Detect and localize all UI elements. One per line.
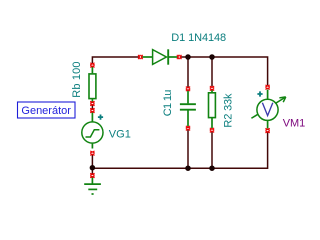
- wire Rb bottom to VG1 top: [91, 105, 93, 110]
- wire R2 top drop: [211, 57, 213, 86]
- VM1 V letter: [262, 103, 272, 116]
- VG1 plus sign: [98, 115, 103, 120]
- node junction dot top C1: [185, 54, 191, 60]
- resistor Rb body: [89, 67, 96, 103]
- pin mark VG1 bottom: [90, 151, 94, 155]
- pin mark diode cathode: [177, 55, 181, 59]
- pin mark R2 bottom: [210, 128, 214, 132]
- wire C1 top drop: [187, 57, 189, 87]
- pin mark VM1 bottom: [265, 128, 269, 132]
- pin mark Rb top: [90, 63, 94, 67]
- node junction dot bottom left: [90, 165, 96, 171]
- resistor R2 label "R2 33k": [223, 93, 235, 128]
- node junction dot top R2: [209, 54, 215, 60]
- pin mark Rb bottom: [90, 101, 94, 105]
- pin mark VG1 top: [90, 108, 94, 112]
- node junction dot bottom R2: [209, 165, 215, 171]
- wire C1 bottom drop: [187, 130, 189, 168]
- wire VG1 bottom to ground node: [91, 154, 93, 174]
- diode D1 label "D1 1N4148": [171, 32, 226, 44]
- text label "Generátor" box: [18, 102, 76, 118]
- VM1 label: [283, 118, 305, 130]
- pin mark diode anode: [138, 55, 142, 59]
- svg-text:VM1: VM1: [283, 118, 305, 130]
- capacitor C1 label "C1 1u": [162, 90, 174, 116]
- svg-text:C1 1u: C1 1u: [162, 90, 174, 116]
- VG1 label: [109, 128, 131, 140]
- ground: [84, 177, 101, 194]
- wire from diode cathode along top rail to VM1: [181, 57, 268, 85]
- svg-text:R2 33k: R2 33k: [223, 93, 235, 128]
- diode D1: [142, 49, 178, 64]
- node junction dot bottom C1: [185, 165, 191, 171]
- svg-text:Generátor: Generátor: [21, 105, 71, 117]
- resistor Rb label "Rb 100": [71, 61, 83, 97]
- wire R2 bottom drop: [211, 132, 213, 169]
- bottom rail wire: [92, 132, 267, 168]
- pin mark ground: [90, 173, 94, 177]
- pin mark VM1 top: [265, 85, 269, 89]
- pin mark R2 top: [210, 86, 214, 90]
- voltmeter VM1: [251, 90, 285, 129]
- wire from Rb top to diode anode: [92, 57, 139, 63]
- pin mark C1 bottom: [186, 126, 190, 130]
- svg-text:Rb 100: Rb 100: [71, 61, 83, 97]
- svg-text:VG1: VG1: [109, 128, 131, 140]
- capacitor C1: [180, 90, 196, 126]
- pin mark C1 top: [186, 87, 190, 91]
- generator VG1: [82, 112, 103, 148]
- VM1 plus sign: [257, 91, 262, 96]
- resistor R2 body: [209, 89, 216, 128]
- svg-text:D1 1N4148: D1 1N4148: [171, 32, 226, 44]
